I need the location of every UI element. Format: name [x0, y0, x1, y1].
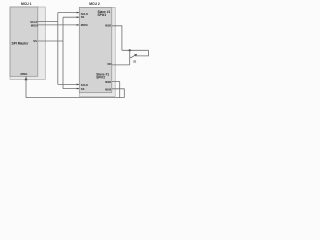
arrowhead SCLK slave1	[77, 12, 80, 14]
svg-text:SS: SS	[81, 87, 85, 91]
arrowhead SS slave2	[77, 88, 80, 90]
svg-text:MOSI: MOSI	[105, 90, 111, 92]
wire SS horizontal from master	[38, 40, 63, 42]
svg-text:S1: S1	[133, 59, 137, 63]
svg-text:DO: DO	[107, 62, 111, 66]
wire MISO to master	[25, 76, 27, 97]
switch S1 stub	[130, 56, 131, 58]
svg-text:MISO: MISO	[105, 26, 111, 28]
svg-text:MISO: MISO	[105, 82, 111, 84]
wire SCLK vertical bus	[57, 13, 59, 85]
SPI Master module box U1	[10, 7, 38, 76]
wire MISO slave2 out	[112, 82, 120, 98]
switch S1 arrowhead	[134, 54, 137, 57]
svg-text:MOSI: MOSI	[31, 23, 38, 27]
wire DO out of slave2	[112, 64, 130, 66]
background	[0, 0, 150, 104]
wire SCLK horizontal from master	[38, 20, 58, 22]
SPI slave module box U2	[79, 7, 112, 92]
arrowhead MISO master	[25, 77, 28, 80]
svg-text:MCU 2: MCU 2	[89, 2, 100, 6]
wire MISO bottom bus	[26, 97, 124, 99]
wire SS to slave1	[63, 16, 79, 18]
svg-text:SS: SS	[33, 39, 37, 43]
arrowhead SS slave1	[77, 16, 80, 18]
arrowhead MOSI slave1	[77, 24, 80, 26]
MCU 2 outer box	[79, 7, 115, 96]
wire loop right down	[136, 50, 149, 56]
wire SS to slave2	[63, 88, 79, 90]
wire MISO top run	[122, 49, 149, 51]
svg-text:MOSI: MOSI	[81, 23, 88, 27]
svg-text:MCU 1: MCU 1	[21, 2, 32, 6]
wire MOSI slave2 out	[112, 89, 125, 98]
wire MISO slave1 out	[112, 26, 122, 51]
svg-text:SPI Master: SPI Master	[12, 42, 30, 46]
switch S1 arm	[131, 55, 136, 58]
wire SCLK to slave2	[58, 83, 80, 85]
svg-text:SCLK: SCLK	[81, 83, 88, 87]
svg-text:MISO: MISO	[21, 72, 28, 76]
junction dot MISO node	[129, 49, 131, 51]
svg-text:SS: SS	[81, 15, 85, 19]
svg-text:SPI#2: SPI#2	[96, 76, 105, 80]
wire SCLK to slave1	[58, 12, 80, 14]
MCU 1 outer box	[10, 7, 45, 79]
wire MOSI master to slave1	[38, 24, 80, 26]
wire SS vertical bus	[62, 17, 64, 88]
wire MISO return vertical	[129, 50, 131, 65]
svg-text:SPI#1: SPI#1	[98, 13, 107, 17]
arrowhead SCLK slave2	[77, 83, 80, 85]
svg-text:SCLK: SCLK	[30, 20, 37, 24]
